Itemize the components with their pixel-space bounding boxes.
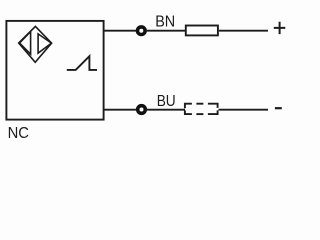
wire: BU terminal to dashed load [146,109,185,111]
diamond inner right triangle [38,34,51,53]
wire: resistor to plus terminal [219,30,268,32]
dashed load box (bottom) [185,104,218,114]
NC output ramp symbol [67,56,97,70]
svg-text:BU: BU [157,93,176,110]
wire: box to BN terminal [104,30,137,32]
wire: BN terminal to load resistor [146,30,185,32]
svg-text:BN: BN [155,14,175,31]
wire: box to BU terminal [104,109,137,111]
svg-text:NC: NC [8,125,29,142]
terminal circle BU [138,106,146,114]
diamond inner left triangle [20,32,31,55]
plus supply symbol [274,22,286,34]
terminal circle BN [138,27,146,35]
minus supply symbol [275,107,282,109]
wire: dashed load to minus terminal [219,109,269,111]
load resistor (top, solid) [186,26,218,36]
proximity sensor diamond symbol [19,26,52,62]
sensor body box [6,21,103,120]
